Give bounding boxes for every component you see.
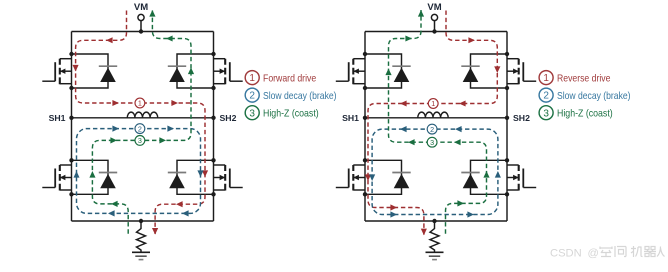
- svg-text:High-Z (coast): High-Z (coast): [263, 109, 319, 120]
- body diode of Q1B high-side left: [365, 54, 411, 88]
- junction dots at drain/source of Q3A low-side left: [69, 158, 73, 196]
- svg-text:1: 1: [138, 99, 142, 108]
- junction dots at drain/source of Q2A high-side right: [211, 52, 215, 90]
- path 1 marker (circled 1): [135, 98, 145, 108]
- svg-text:1: 1: [431, 99, 435, 108]
- svg-text:2: 2: [543, 91, 549, 102]
- body diode of Q3A low-side left: [72, 160, 118, 194]
- watermark text CSDN: [550, 247, 599, 259]
- node SH2 (R bridge): [505, 113, 530, 123]
- legend item 2: Slow decay (brake): [539, 88, 630, 102]
- wire: left rail (L bridge): [71, 32, 73, 222]
- wire: top VM rail (R bridge): [365, 31, 507, 33]
- path 2 marker (circled 2): [135, 124, 145, 134]
- legend item 1: Forward drive: [245, 71, 316, 85]
- junction dots at drain/source of Q4A low-side right: [211, 158, 215, 196]
- svg-text:VM: VM: [134, 2, 148, 13]
- current path 3: high-Z coast (green dashed): [385, 10, 489, 234]
- body diode of Q1A high-side left: [72, 54, 118, 88]
- wire: bottom rail (L bridge): [72, 220, 214, 222]
- path 2 marker (circled 2): [427, 124, 437, 134]
- svg-text:2: 2: [249, 91, 255, 102]
- svg-text:Forward drive: Forward drive: [263, 73, 316, 84]
- motor winding (inductor) between SH1 and SH2 (R bridge): [365, 112, 507, 118]
- node SH2 (L bridge): [211, 113, 236, 123]
- node SH1 (L bridge): [49, 113, 74, 123]
- svg-text:SH1: SH1: [342, 113, 359, 123]
- transistor Q1A high-side left (N-MOSFET): [42, 59, 71, 84]
- body diode of Q4A low-side right: [168, 160, 214, 194]
- node SH1 (R bridge): [342, 113, 367, 123]
- current path 1: forward drive (red dashed): [73, 11, 209, 235]
- body diode of Q4B low-side right: [461, 160, 507, 194]
- svg-text:2: 2: [430, 125, 434, 134]
- ground symbol (R bridge): [426, 252, 444, 259]
- svg-text:3: 3: [543, 108, 549, 119]
- svg-text:Reverse drive: Reverse drive: [557, 73, 611, 84]
- svg-text:Slow decay (brake): Slow decay (brake): [557, 91, 631, 102]
- svg-text:1: 1: [543, 73, 549, 84]
- VM terminal (R bridge): [427, 2, 441, 34]
- current path 3: high-Z coast (green dashed): [89, 10, 194, 234]
- wire: bottom rail (R bridge): [365, 220, 507, 222]
- wire: left rail (R bridge): [364, 32, 366, 222]
- svg-text:SH1: SH1: [49, 113, 66, 123]
- transistor Q3A low-side left (N-MOSFET): [42, 165, 71, 191]
- path 3 marker (circled 3): [135, 136, 145, 146]
- junction dots at drain/source of Q3B low-side left: [363, 158, 367, 196]
- current path 2: slow decay brake loop (blue dashed): [369, 126, 501, 218]
- wire: right rail (L bridge): [213, 32, 215, 222]
- path 3 marker (circled 3): [427, 137, 437, 147]
- svg-text:CSDN: CSDN: [550, 247, 582, 259]
- junction dots at drain/source of Q4B low-side right: [505, 158, 509, 196]
- junction dots at drain/source of Q2B high-side right: [505, 52, 509, 90]
- svg-text:SH2: SH2: [513, 113, 530, 123]
- svg-text:3: 3: [138, 136, 142, 145]
- junction dots at drain/source of Q1B high-side left: [363, 52, 367, 90]
- transistor Q1B high-side left (N-MOSFET): [336, 59, 365, 84]
- current path 2: slow decay brake loop (blue dashed): [74, 126, 204, 217]
- motor winding (inductor) between SH1 and SH2 (L bridge): [72, 112, 214, 118]
- svg-text:Slow decay (brake): Slow decay (brake): [263, 91, 337, 102]
- transistor Q4A low-side right (N-MOSFET): [214, 165, 243, 191]
- current path 1: reverse drive (red dashed): [365, 11, 501, 236]
- svg-text:1: 1: [249, 73, 255, 84]
- legend item 3: High-Z (coast): [245, 106, 319, 120]
- body diode of Q2B high-side right: [461, 54, 507, 88]
- transistor Q2A high-side right (N-MOSFET): [214, 59, 243, 84]
- svg-text:2: 2: [138, 124, 142, 133]
- ground symbol (L bridge): [132, 252, 150, 259]
- watermark CJK glyph approximations: [600, 246, 665, 257]
- path 1 marker (circled 1): [428, 99, 438, 109]
- legend item 3: High-Z (coast): [539, 106, 613, 120]
- svg-text:3: 3: [430, 138, 434, 147]
- sense resistor (R bridge): [430, 219, 439, 252]
- transistor Q2B high-side right (N-MOSFET): [507, 59, 536, 84]
- svg-text:SH2: SH2: [220, 113, 237, 123]
- svg-text:VM: VM: [427, 2, 441, 13]
- transistor Q4B low-side right (N-MOSFET): [507, 165, 536, 191]
- wire: top VM rail (L bridge): [72, 31, 214, 33]
- svg-text:High-Z (coast): High-Z (coast): [557, 109, 613, 120]
- sense resistor (L bridge): [137, 219, 146, 252]
- legend item 1: Reverse drive: [539, 71, 611, 85]
- junction dots at drain/source of Q1A high-side left: [69, 52, 73, 90]
- wire: right rail (R bridge): [506, 32, 508, 222]
- svg-text:3: 3: [249, 108, 255, 119]
- svg-text:@: @: [588, 247, 599, 259]
- VM terminal (L bridge): [134, 2, 148, 34]
- transistor Q3B low-side left (N-MOSFET): [336, 165, 365, 191]
- body diode of Q2A high-side right: [168, 54, 214, 88]
- legend item 2: Slow decay (brake): [245, 88, 336, 102]
- body diode of Q3B low-side left: [365, 160, 411, 194]
